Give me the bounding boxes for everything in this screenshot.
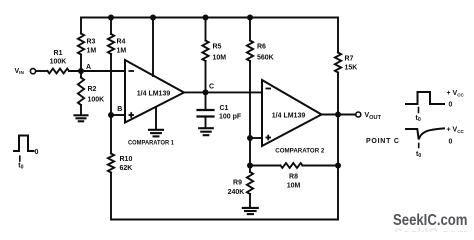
wire comparator1 ground pin <box>155 107 157 129</box>
svg-text:15K: 15K <box>345 65 358 72</box>
svg-text:1M: 1M <box>117 48 127 55</box>
resistor R2 <box>80 71 82 78</box>
svg-text:t0: t0 <box>416 151 421 159</box>
node C <box>203 89 209 95</box>
comparator1 plus sign <box>129 114 135 116</box>
node junction rail-R5 <box>203 15 209 21</box>
wire R6 to comparator2 plus node <box>249 61 251 138</box>
wire top VCC rail <box>81 18 338 53</box>
wire comparator1 V+ power pin <box>152 18 154 77</box>
svg-text:COMPARATOR 2: COMPARATOR 2 <box>275 148 324 155</box>
svg-text:COMPARATOR 1: COMPARATOR 1 <box>128 140 174 147</box>
POINT C waveform <box>406 128 444 139</box>
svg-text:SeekIC.com: SeekIC.com <box>394 226 469 232</box>
node junction rail-R4 <box>108 15 114 21</box>
svg-text:R4: R4 <box>117 39 126 46</box>
wire comparator1 output to comparator2 minus input <box>184 91 262 93</box>
node R9-R8 <box>247 163 253 169</box>
op-amp U1 comparator 1 triangle <box>125 60 184 123</box>
svg-text:+ VCC: + VCC <box>447 127 465 135</box>
svg-text:R10: R10 <box>120 156 133 163</box>
wire node A to comparator1 minus input <box>69 70 125 72</box>
svg-text:C: C <box>209 84 214 91</box>
node A <box>78 68 84 74</box>
wire bottom feedback rail <box>111 73 338 220</box>
svg-text:POINT C: POINT C <box>366 138 400 145</box>
svg-text:1M: 1M <box>87 48 97 55</box>
resistor R1 <box>48 69 70 74</box>
comparator1 minus sign <box>129 70 135 72</box>
svg-text:VIN: VIN <box>15 68 25 75</box>
terminal VIN <box>30 69 35 74</box>
wire R3 to node A <box>80 55 82 72</box>
svg-text:0: 0 <box>449 139 453 146</box>
resistor R5 <box>205 18 207 41</box>
svg-text:R8: R8 <box>289 174 298 181</box>
svg-text:10M: 10M <box>213 55 227 62</box>
svg-text:100K: 100K <box>50 59 67 66</box>
resistor R10 <box>108 154 114 173</box>
node comparator2 plus <box>247 135 253 141</box>
svg-text:R9: R9 <box>233 180 242 187</box>
svg-text:t0: t0 <box>18 163 23 171</box>
node VOUT <box>335 112 341 118</box>
VOUT pulse waveform <box>406 92 444 104</box>
svg-text:VOUT: VOUT <box>365 112 382 121</box>
capacitor C1 <box>205 92 207 109</box>
svg-text:R5: R5 <box>213 44 222 51</box>
svg-text:R3: R3 <box>87 39 96 46</box>
svg-text:0: 0 <box>449 102 453 109</box>
node junction rail-power1 <box>150 15 156 21</box>
svg-text:62K: 62K <box>120 165 133 172</box>
resistor R6 <box>249 18 251 41</box>
svg-text:1/4 LM139: 1/4 LM139 <box>272 113 306 120</box>
svg-text:0: 0 <box>35 149 39 156</box>
wire comparator2 output to VOUT <box>322 114 356 116</box>
wire node B to R10 <box>110 115 112 154</box>
svg-text:560K: 560K <box>257 55 274 62</box>
svg-text:10M: 10M <box>287 183 301 190</box>
wire plus node to R8/R9 node <box>249 138 251 166</box>
node junction rail-R6 <box>247 15 253 21</box>
svg-text:R1: R1 <box>54 50 63 57</box>
svg-text:240K: 240K <box>228 189 245 196</box>
ground below R9 <box>243 207 258 209</box>
ground comparator1 pin <box>149 129 163 131</box>
node R8-feedback <box>335 163 341 169</box>
op-amp U2 comparator 2 triangle <box>262 80 322 146</box>
resistor R9 <box>249 166 251 173</box>
wire node B to comparator1 plus input <box>111 114 125 116</box>
terminal VOUT <box>356 112 361 117</box>
ground below R2 <box>75 114 88 116</box>
svg-text:100 pF: 100 pF <box>219 113 242 120</box>
wire R5 to node C <box>205 61 207 92</box>
node B <box>108 112 114 118</box>
resistor R4 <box>110 18 112 35</box>
svg-text:A: A <box>86 64 91 71</box>
resistor R8 <box>250 165 281 167</box>
comparator2 plus sign <box>266 137 272 139</box>
resistor R3 <box>78 34 84 55</box>
svg-text:100K: 100K <box>88 97 105 104</box>
wire VIN to R1 <box>36 70 47 72</box>
svg-text:R7: R7 <box>345 56 354 63</box>
svg-text:1/4 LM139: 1/4 LM139 <box>137 91 171 98</box>
wire R4 to node B <box>110 54 112 115</box>
svg-text:B: B <box>117 106 122 113</box>
svg-text:R2: R2 <box>88 86 97 93</box>
ground below C1 <box>199 127 213 129</box>
comparator2 minus sign <box>266 88 272 90</box>
svg-text:+ VCC: + VCC <box>447 90 465 98</box>
svg-text:C1: C1 <box>220 105 229 112</box>
svg-text:t0: t0 <box>416 115 421 123</box>
resistor R7 <box>335 53 341 73</box>
wire to comparator2 plus input <box>250 137 262 139</box>
svg-text:R6: R6 <box>257 44 266 51</box>
input pulse waveform <box>14 136 34 152</box>
